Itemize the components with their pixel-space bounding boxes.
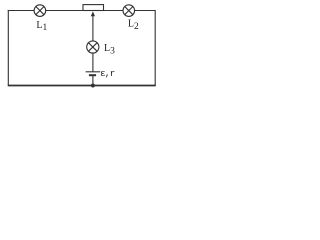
resistor R (slide rheostat box)	[83, 5, 104, 11]
svg-text:L3: L3	[104, 43, 115, 57]
wire left side	[7, 10, 9, 86]
lamp L1	[34, 5, 46, 17]
lamp L3	[87, 41, 99, 53]
wire L3 to battery	[92, 53, 94, 72]
wire top-left segment	[8, 10, 34, 12]
battery long plate (positive)	[86, 71, 101, 73]
wire L2 to top-right corner	[135, 10, 156, 12]
svg-text:L2: L2	[128, 19, 139, 33]
wire battery to bottom junction	[92, 75, 94, 85]
lamp L2	[123, 5, 135, 17]
svg-text:L1: L1	[36, 20, 47, 33]
wire right side	[154, 10, 156, 86]
rheostat wiper arrow	[91, 11, 95, 41]
wire bottom	[8, 85, 156, 87]
junction dot	[91, 84, 95, 88]
wire L1 to rheostat	[46, 10, 83, 12]
battery short plate (negative)	[89, 74, 96, 76]
svg-text:ε,r: ε,r	[100, 68, 115, 79]
wire rheostat to L2	[104, 10, 123, 12]
